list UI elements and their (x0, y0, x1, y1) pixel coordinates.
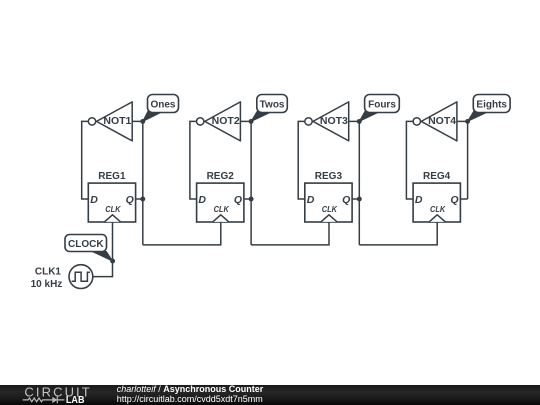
svg-text:10 kHz: 10 kHz (31, 279, 63, 290)
node label flag Ones (148, 95, 179, 113)
wire: CLK pin of REG2 to Q of previous register (143, 222, 221, 245)
svg-text:Eights: Eights (476, 99, 507, 110)
junction dot at Q output of REG2 (249, 197, 254, 202)
svg-text:Twos: Twos (260, 99, 285, 110)
svg-text:Fours: Fours (368, 99, 396, 110)
wire: vertical net Twos from Q of REG2 (250, 121, 252, 244)
svg-text:D: D (198, 194, 206, 206)
wire: NOT1 input from node Ones (132, 120, 143, 122)
wire: vertical net Eights from Q of REG4 (467, 121, 469, 199)
svg-text:charlotteif / Asynchronous Cou: charlotteif / Asynchronous Counter (117, 384, 264, 394)
svg-text:D: D (307, 194, 315, 206)
REG1 pin label CLK (105, 204, 121, 214)
junction dot at node CLOCK (110, 259, 115, 264)
junction dot at Q output of REG1 (140, 197, 145, 202)
REG2 pin label D (198, 194, 206, 206)
label CLK1 (35, 267, 62, 278)
wire: NOT3 input from node Fours (349, 120, 360, 122)
wire: vertical net Ones from Q of REG1 (142, 121, 144, 244)
flag tail of node label CLOCK (91, 251, 113, 261)
svg-text:Q: Q (450, 194, 458, 206)
REG3 name label (315, 171, 343, 182)
svg-text:D: D (415, 194, 423, 206)
inverter NOT3 triangle (313, 102, 349, 141)
flag tail of node label Twos (251, 111, 271, 122)
inverter NOT1 triangle (97, 102, 133, 141)
svg-text:LAB: LAB (66, 394, 85, 405)
CircuitLab logo diode (52, 397, 64, 404)
wire: Q of REG2 to node Twos (244, 198, 251, 200)
inverter NOT2 triangle (205, 102, 241, 141)
wire: CLK pin of REG1 down to clock source CLK1 (93, 222, 113, 277)
svg-text:CLK1: CLK1 (35, 267, 62, 278)
clock source CLK1 circle (69, 265, 93, 289)
flag tail of node label Eights (468, 111, 488, 122)
junction dot at node Twos (NOT2 input) (249, 119, 254, 124)
node label flag Eights (473, 95, 510, 113)
wire: NOT4 input from node Eights (457, 120, 468, 122)
svg-text:CLK: CLK (105, 204, 121, 214)
wire: NOT3 output to D of REG3 (298, 121, 305, 199)
wire: NOT2 input from node Twos (240, 120, 251, 122)
svg-text:CLK: CLK (214, 204, 230, 214)
clock source CLK1 square-wave glyph (72, 272, 90, 281)
node label flag CLOCK (65, 235, 107, 252)
svg-text:CLK: CLK (430, 204, 446, 214)
REG3 pin label CLK (322, 204, 338, 214)
REG2 pin label Q (234, 194, 242, 206)
REG3 clock edge caret (321, 215, 337, 222)
svg-text:NOT1: NOT1 (103, 115, 131, 127)
CircuitLab logo wordmark CIRCUIT (24, 385, 91, 400)
REG3 pin label D (307, 194, 315, 206)
REG1 clock edge caret (104, 215, 120, 222)
wire: CLK pin of REG4 to Q of previous register (359, 222, 437, 245)
REG4 pin label CLK (430, 204, 446, 214)
junction dot at node Fours (NOT3 input) (357, 119, 362, 124)
REG1 name label (98, 171, 126, 182)
REG4 name label (423, 171, 451, 182)
wire: NOT2 output to D of REG2 (190, 121, 197, 199)
REG1 pin label Q (126, 194, 134, 206)
svg-text:http://circuitlab.com/cvdd5xdt: http://circuitlab.com/cvdd5xdt7n5mm (117, 394, 263, 404)
REG4 clock edge caret (429, 215, 445, 222)
svg-text:REG2: REG2 (207, 171, 235, 182)
CircuitLab logo resistor zigzag (23, 398, 53, 402)
node label flag Twos (257, 95, 288, 113)
inverter NOT4 triangle (421, 102, 457, 141)
wire: vertical net Fours from Q of REG3 (358, 121, 360, 244)
wire: CLK pin of REG3 to Q of previous register (251, 222, 329, 245)
wire: Q of REG1 to node Ones (136, 198, 143, 200)
footer author / title line (117, 384, 264, 394)
footer bar (0, 385, 540, 405)
wire: Q of REG3 to node Fours (352, 198, 359, 200)
inverter NOT3 bubble (305, 118, 312, 125)
wire: Q of REG4 to node Eights (460, 198, 467, 200)
inverter NOT2 bubble (197, 118, 204, 125)
inverter NOT4 bubble (413, 118, 420, 125)
node label flag Fours (365, 95, 400, 113)
svg-text:NOT3: NOT3 (320, 115, 348, 127)
REG4 pin label D (415, 194, 423, 206)
svg-text:NOT4: NOT4 (428, 115, 456, 127)
svg-text:CLOCK: CLOCK (68, 239, 104, 250)
flag tail of node label Fours (359, 111, 378, 122)
REG2 clock edge caret (213, 215, 229, 222)
CircuitLab logo wordmark LAB (66, 394, 85, 405)
svg-text:REG3: REG3 (315, 171, 343, 182)
svg-text:Q: Q (234, 194, 242, 206)
svg-text:Q: Q (342, 194, 350, 206)
junction dot at node Ones (NOT1 input) (140, 119, 145, 124)
D flip-flop REG1 body (88, 183, 135, 222)
svg-text:REG4: REG4 (423, 171, 451, 182)
flag tail of node label Ones (143, 111, 162, 122)
REG4 pin label Q (450, 194, 458, 206)
value label 10 kHz (31, 279, 63, 290)
junction dot at Q output of REG3 (357, 197, 362, 202)
REG3 pin label Q (342, 194, 350, 206)
svg-text:CLK: CLK (322, 204, 338, 214)
junction dot at node Eights (NOT4 input) (465, 119, 470, 124)
svg-text:Q: Q (126, 194, 134, 206)
REG2 pin label CLK (214, 204, 230, 214)
wire: NOT4 output to D of REG4 (406, 121, 413, 199)
wire: NOT1 output to D of REG1 (82, 121, 89, 199)
inverter NOT1 bubble (88, 118, 95, 125)
REG2 name label (207, 171, 235, 182)
svg-text:NOT2: NOT2 (212, 115, 240, 127)
D flip-flop REG4 body (413, 183, 460, 222)
footer url line (117, 394, 263, 404)
REG1 pin label D (90, 194, 98, 206)
svg-text:Ones: Ones (150, 99, 175, 110)
svg-text:REG1: REG1 (98, 171, 126, 182)
svg-text:D: D (90, 194, 98, 206)
D flip-flop REG3 body (305, 183, 352, 222)
D flip-flop REG2 body (197, 183, 244, 222)
